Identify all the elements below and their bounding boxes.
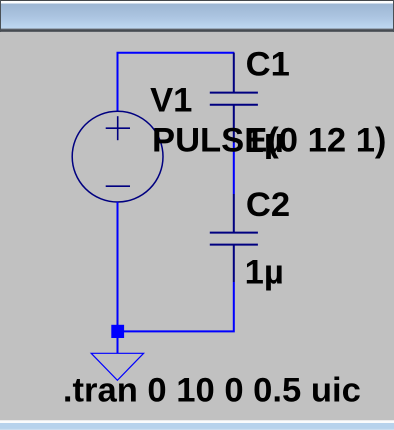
svg-text:1µ: 1µ bbox=[245, 254, 284, 292]
node junction bbox=[111, 325, 124, 338]
ground bbox=[91, 353, 143, 380]
svg-text:.tran 0 10 0 0.5 uic: .tran 0 10 0 0.5 uic bbox=[63, 371, 361, 409]
capacitor C1 bbox=[210, 53, 258, 143]
status bar bbox=[0, 420, 394, 430]
window title bar bbox=[0, 0, 394, 32]
wire V1 bottom to junction bbox=[117, 202, 119, 326]
svg-text:V1: V1 bbox=[150, 82, 192, 120]
capacitor C2 bbox=[210, 194, 258, 282]
wire junction to ground bbox=[117, 337, 119, 353]
svg-text:1µ: 1µ bbox=[245, 122, 284, 160]
wire C1 to C2 bbox=[233, 143, 235, 194]
wire top from V1 to C1 bbox=[118, 53, 235, 111]
svg-text:C1: C1 bbox=[246, 45, 290, 83]
voltage source V1 bbox=[72, 111, 163, 202]
svg-text:C2: C2 bbox=[246, 186, 290, 224]
wire C2 bottom to junction bbox=[123, 282, 234, 331]
